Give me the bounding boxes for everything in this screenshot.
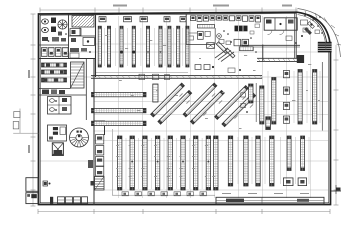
band A aisle end line bbox=[96, 72, 188, 74]
diagonal aisle specks bbox=[171, 93, 253, 119]
gondola aisle C3 bbox=[298, 70, 302, 125]
queue line bbox=[112, 194, 215, 196]
rack stock marks bbox=[44, 64, 63, 82]
L-wall sales corner bbox=[94, 121, 105, 135]
diagonal gondola D6 bbox=[222, 93, 256, 127]
column dots band A bbox=[120, 51, 161, 54]
mid floor fixtures bbox=[195, 65, 241, 73]
diagonal gondola D5 bbox=[215, 86, 249, 120]
curve hatch ticks bbox=[305, 11, 341, 45]
deli small circle bbox=[217, 34, 222, 39]
gondola aisle B4 bbox=[155, 136, 159, 190]
mid backroom marks bbox=[88, 160, 94, 186]
toilet block bbox=[48, 97, 72, 115]
storage rack 3 bbox=[42, 78, 67, 82]
corner inner wall arc bbox=[298, 15, 327, 51]
gondola aisle A9 bbox=[186, 26, 189, 67]
top dimension line bbox=[40, 5, 298, 13]
wall boxes sales top bbox=[99, 17, 186, 22]
right benchmark tick bbox=[331, 185, 341, 194]
gondola aisle H2 bbox=[92, 108, 147, 112]
bakery bench lines bbox=[215, 49, 234, 62]
deli X-box bbox=[207, 43, 215, 49]
gondola aisle C4 bbox=[313, 70, 317, 125]
corner cafe fixtures bbox=[286, 20, 313, 44]
short gondola E2 bbox=[301, 136, 305, 171]
gondola aisle B11 bbox=[244, 136, 248, 186]
corner stair block bbox=[318, 42, 332, 53]
deli diagonal cases bbox=[216, 42, 235, 58]
small rooms right of fan bbox=[58, 29, 95, 46]
gondola aisle B9 bbox=[214, 136, 218, 190]
bin boxes column C bbox=[283, 71, 289, 124]
fixtures y89-95 bbox=[42, 90, 65, 95]
corner scatter bbox=[304, 15, 323, 34]
dumbwaiter shaft bbox=[52, 143, 63, 156]
gondola aisle A4 bbox=[132, 26, 135, 67]
gondola aisle A1 bbox=[98, 26, 101, 67]
produce right rack bbox=[249, 84, 253, 103]
fan circle bbox=[58, 20, 67, 29]
deli right counter bbox=[240, 47, 254, 51]
short gondola E1 bbox=[287, 136, 291, 171]
gondola aisle B5 bbox=[168, 136, 172, 190]
gondola aisle C2 bbox=[272, 78, 276, 125]
gondola aisle A5 bbox=[146, 26, 149, 67]
checkout stands bbox=[122, 192, 207, 196]
tanks bbox=[42, 19, 49, 33]
deli stack boxes bbox=[198, 31, 211, 39]
gondola aisle H3 bbox=[92, 121, 147, 125]
entrance vestibule strip bbox=[216, 197, 324, 204]
dark corner rack bbox=[266, 117, 271, 130]
spiral circle bbox=[70, 128, 89, 147]
floor fixtures right of produce bbox=[241, 93, 248, 113]
back stair bottom bbox=[95, 177, 105, 191]
top-left partition walls bbox=[39, 14, 96, 77]
column dots bottom band bbox=[131, 161, 209, 163]
gondola aisle B3 bbox=[143, 136, 147, 190]
dock boxes outside wall bbox=[13, 109, 38, 134]
office room bbox=[48, 125, 67, 141]
stock rack by wall bbox=[96, 135, 104, 177]
produce bulkhead wall bbox=[91, 76, 263, 79]
gondola aisle H1 bbox=[92, 92, 147, 96]
gondola aisle A3 bbox=[120, 26, 123, 67]
aisle centerlines bbox=[104, 28, 320, 189]
gondola aisle A6 bbox=[159, 26, 162, 67]
diagonal gondola D2 bbox=[158, 90, 192, 124]
aisle fixtures below band A bbox=[139, 74, 170, 80]
diagonal gondola D3 bbox=[183, 83, 217, 117]
diagonal gondola D4 bbox=[190, 90, 224, 124]
cafe corner extra fixtures bbox=[303, 16, 321, 33]
deli top equipment row bbox=[191, 16, 261, 22]
gondola aisle A8 bbox=[177, 26, 180, 67]
outer wall bbox=[39, 12, 331, 204]
bench row bottom bbox=[50, 197, 88, 204]
prep benches bbox=[42, 48, 91, 59]
receiving fixtures bbox=[43, 181, 51, 186]
produce right wall line bbox=[255, 83, 257, 122]
outer canopy arc bbox=[298, 9, 341, 58]
hatched store room bbox=[72, 16, 94, 28]
deli extra boxes bbox=[189, 36, 231, 45]
column grid lines bbox=[40, 16, 328, 198]
gondola aisle B2 bbox=[130, 136, 134, 190]
annex rooms bbox=[26, 178, 38, 204]
gondola aisle B8 bbox=[206, 136, 210, 190]
diagonal gondola D1 bbox=[151, 83, 185, 117]
stair left bbox=[71, 62, 85, 88]
gondola aisle C1 bbox=[260, 86, 264, 124]
corridor walls bbox=[39, 59, 95, 206]
right aisle wall line bbox=[321, 62, 323, 131]
service boxes right bbox=[283, 178, 306, 186]
deli oven block bbox=[235, 26, 248, 32]
storage rack 1 bbox=[42, 63, 67, 67]
gondola aisle B7 bbox=[194, 136, 198, 190]
produce end rack bbox=[153, 84, 158, 102]
bottom dimension line bbox=[38, 209, 330, 214]
gondola aisle B6 bbox=[181, 136, 185, 190]
gondola aisle B10 bbox=[228, 136, 232, 186]
left dimension line bbox=[28, 14, 36, 206]
checkout marks bbox=[222, 193, 309, 195]
deli mid extra walls bbox=[188, 24, 260, 53]
gondola aisle B12 bbox=[256, 136, 260, 186]
deli partition walls bbox=[186, 13, 300, 62]
gondola aisle A2 bbox=[107, 26, 110, 67]
right dimension line bbox=[334, 45, 339, 205]
deli mid cluster bbox=[230, 39, 248, 46]
gondola aisle B1 bbox=[118, 136, 122, 190]
deli counter bar bbox=[198, 25, 215, 29]
walk-in coolers bbox=[264, 18, 297, 35]
annotation text specks bbox=[105, 35, 320, 177]
gondola aisle A7 bbox=[168, 26, 171, 67]
storage rack 2 bbox=[42, 70, 67, 74]
gondola aisle B13 bbox=[270, 136, 274, 186]
dark fixtures top-left bbox=[42, 18, 67, 42]
right service counter bbox=[257, 55, 304, 63]
